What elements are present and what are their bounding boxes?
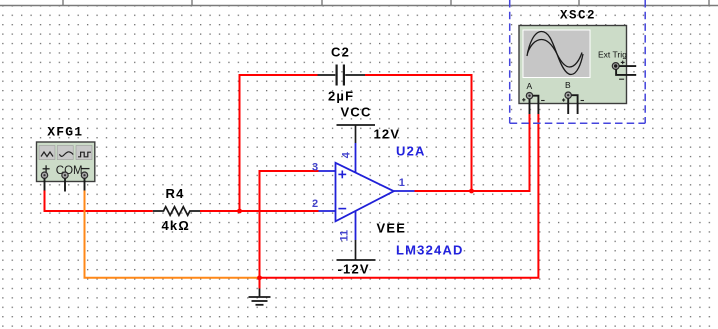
svg-text:11: 11 bbox=[339, 230, 351, 242]
svg-text:U2A: U2A bbox=[396, 144, 426, 159]
svg-text:3: 3 bbox=[312, 161, 318, 173]
svg-text:A: A bbox=[527, 81, 533, 91]
svg-text:R4: R4 bbox=[166, 186, 185, 201]
svg-text:4: 4 bbox=[341, 151, 353, 158]
svg-text:VCC: VCC bbox=[341, 105, 372, 120]
svg-text:2µF: 2µF bbox=[328, 88, 354, 103]
svg-text:LM324AD: LM324AD bbox=[396, 243, 464, 258]
svg-text:B: B bbox=[565, 80, 571, 90]
svg-text:-12V: -12V bbox=[338, 262, 370, 277]
svg-text:1: 1 bbox=[399, 177, 405, 189]
svg-text:Ext Trig: Ext Trig bbox=[598, 50, 627, 60]
svg-text:4kΩ: 4kΩ bbox=[162, 218, 190, 233]
svg-text:2: 2 bbox=[312, 198, 318, 210]
svg-text:12V: 12V bbox=[374, 127, 401, 142]
svg-text:XSC2: XSC2 bbox=[560, 8, 596, 22]
svg-text:XFG1: XFG1 bbox=[47, 125, 83, 140]
svg-text:VEE: VEE bbox=[377, 220, 407, 235]
svg-text:C2: C2 bbox=[331, 44, 350, 59]
svg-text:COM: COM bbox=[56, 165, 83, 177]
